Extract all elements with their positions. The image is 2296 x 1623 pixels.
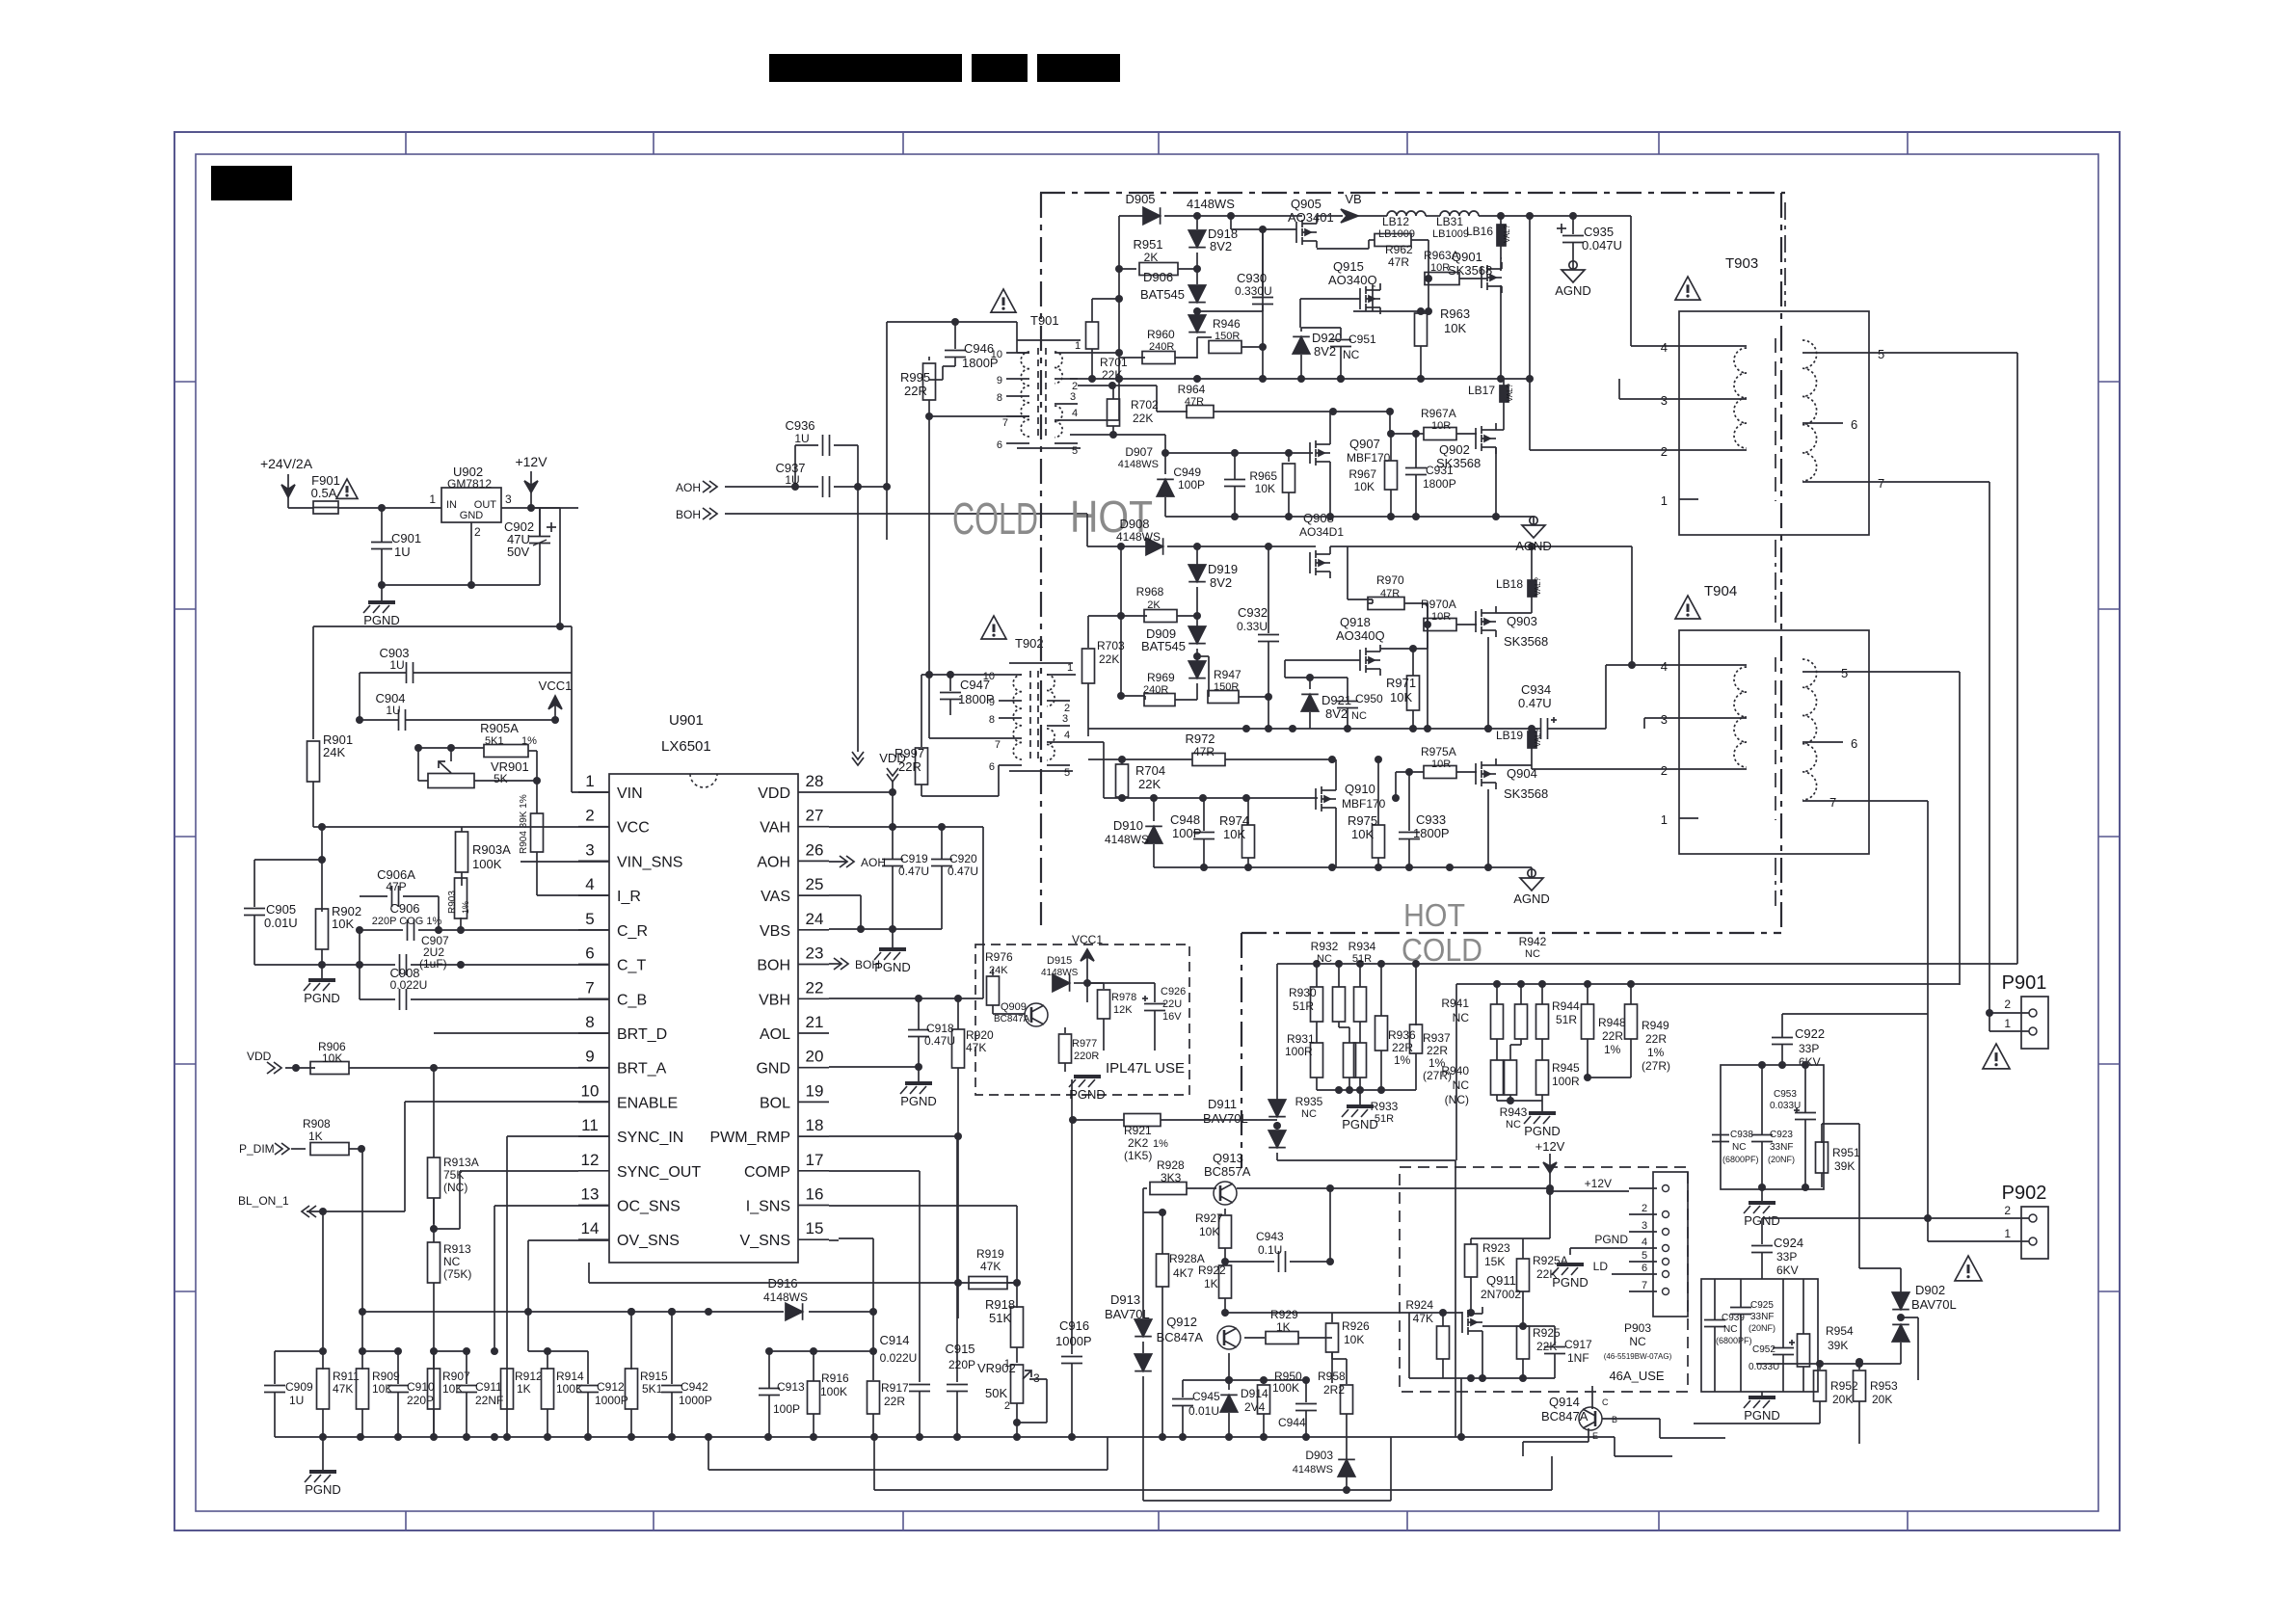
svg-text:18: 18 bbox=[806, 1116, 824, 1134]
svg-text:22R: 22R bbox=[1645, 1032, 1667, 1046]
resistor R903 bbox=[447, 878, 470, 918]
svg-text:NC: NC bbox=[1453, 1011, 1470, 1024]
svg-text:R926: R926 bbox=[1342, 1319, 1370, 1333]
arrow P_DIM in bbox=[239, 1142, 306, 1156]
label IPL47L USE bbox=[1106, 1060, 1185, 1077]
svg-text:D903: D903 bbox=[1305, 1449, 1333, 1462]
svg-text:7: 7 bbox=[995, 739, 1001, 751]
resistor bank2 col2 bbox=[1505, 984, 1528, 1101]
svg-text:R951: R951 bbox=[1832, 1146, 1860, 1159]
wire bbox=[360, 896, 442, 999]
svg-text:PGND: PGND bbox=[1524, 1124, 1561, 1138]
svg-text:C947: C947 bbox=[960, 678, 990, 692]
svg-text:100K: 100K bbox=[556, 1382, 583, 1396]
svg-text:6: 6 bbox=[1642, 1263, 1647, 1274]
dash-dot hotcold drop bbox=[1241, 933, 1242, 1168]
svg-text:R702: R702 bbox=[1131, 398, 1159, 412]
wire BL_ON riser bbox=[323, 1102, 405, 1351]
svg-text:33P: 33P bbox=[1799, 1042, 1819, 1055]
resistor R949 22R 1% (27R) bbox=[1625, 984, 1671, 1078]
svg-text:47R: 47R bbox=[1388, 255, 1409, 269]
svg-text:R975A: R975A bbox=[1421, 745, 1456, 758]
resistor R963A 10R bbox=[1424, 240, 1482, 285]
svg-text:R908: R908 bbox=[303, 1117, 331, 1131]
svg-text:1K: 1K bbox=[517, 1382, 531, 1396]
svg-text:NC: NC bbox=[1317, 953, 1332, 965]
svg-text:220P: 220P bbox=[948, 1358, 975, 1371]
svg-text:26: 26 bbox=[806, 840, 824, 859]
wire pin10 ENABLE bbox=[405, 1101, 609, 1103]
svg-text:1K: 1K bbox=[1204, 1277, 1218, 1290]
svg-text:BAV70L: BAV70L bbox=[1203, 1111, 1248, 1126]
hot-cold dashed boundary bbox=[1040, 193, 1785, 933]
capacitor C942 1000P bbox=[661, 1308, 712, 1437]
svg-text:0.01U: 0.01U bbox=[1188, 1404, 1219, 1418]
svg-text:GND: GND bbox=[756, 1061, 790, 1078]
capacitor C924 33P 6KV bbox=[1751, 1218, 1803, 1279]
svg-text:C948: C948 bbox=[1170, 812, 1200, 827]
wire pin1 bbox=[572, 673, 609, 792]
svg-text:23: 23 bbox=[806, 945, 824, 963]
wire q910 drain bbox=[1335, 759, 1337, 784]
diode D902 BAV70L bbox=[1892, 1268, 1957, 1364]
svg-text:R928A: R928A bbox=[1169, 1252, 1205, 1265]
svg-text:C925: C925 bbox=[1750, 1300, 1774, 1311]
svg-text:R929: R929 bbox=[1270, 1308, 1298, 1321]
svg-text:R931: R931 bbox=[1287, 1032, 1315, 1046]
svg-text:C944: C944 bbox=[1278, 1416, 1306, 1429]
ground AGND2 bbox=[1513, 869, 1550, 906]
transformer T902 bbox=[983, 636, 1076, 779]
wire 12v to connector bbox=[1549, 1217, 1551, 1219]
svg-text:AGND: AGND bbox=[1555, 283, 1591, 298]
svg-text:1%: 1% bbox=[1647, 1046, 1665, 1059]
svg-text:LB17: LB17 bbox=[1468, 384, 1495, 397]
power flag +24V/2A bbox=[260, 456, 313, 497]
resistor R920 47K bbox=[952, 998, 995, 1136]
resistor bank col2 bbox=[1333, 964, 1356, 1090]
label 46A_USE bbox=[1609, 1369, 1664, 1383]
svg-text:PGND: PGND bbox=[1069, 1087, 1106, 1102]
resistor R931 100R bbox=[1285, 1032, 1323, 1090]
diode D906 BAT545 bbox=[1140, 269, 1206, 359]
ground PGND bbox=[874, 929, 911, 974]
wire ipl pgnd bbox=[0, 0, 1, 1]
wire box bottom bbox=[1761, 1392, 1763, 1397]
svg-text:R923: R923 bbox=[1482, 1241, 1510, 1255]
svg-text:C924: C924 bbox=[1774, 1236, 1803, 1250]
inductor LB12 LB1009 bbox=[1378, 211, 1440, 240]
op-amp U901 LX6501 28-pin controller bbox=[578, 712, 829, 1263]
svg-text:8: 8 bbox=[585, 1013, 594, 1031]
svg-text:22K: 22K bbox=[1138, 777, 1161, 791]
inductor LB16 (ferrite) bbox=[1466, 216, 1511, 258]
svg-text:R946: R946 bbox=[1213, 317, 1241, 331]
svg-text:7: 7 bbox=[585, 978, 594, 997]
svg-text:47R: 47R bbox=[1380, 588, 1400, 599]
svg-text:10K: 10K bbox=[372, 1382, 392, 1396]
svg-text:100P: 100P bbox=[1178, 478, 1205, 492]
svg-text:LB16: LB16 bbox=[1466, 225, 1493, 238]
arrow VB bbox=[1341, 192, 1387, 223]
svg-text:1000P: 1000P bbox=[679, 1394, 712, 1407]
resistor R947 150R bbox=[1197, 656, 1272, 704]
arrow AOH out bbox=[829, 856, 886, 869]
svg-text:VBH: VBH bbox=[759, 992, 790, 1008]
svg-text:SYNC_IN: SYNC_IN bbox=[617, 1130, 683, 1146]
warning triangle bbox=[1983, 1044, 2010, 1069]
svg-text:VCC1: VCC1 bbox=[539, 678, 573, 693]
svg-text:47R: 47R bbox=[1185, 396, 1204, 408]
svg-text:C920: C920 bbox=[949, 852, 977, 865]
wire COMP drop bbox=[829, 1171, 920, 1382]
svg-text:P901: P901 bbox=[2002, 972, 2047, 994]
svg-text:12: 12 bbox=[581, 1151, 600, 1169]
wire P902 feed bbox=[0, 0, 1, 1]
arrow BOH out bbox=[829, 958, 880, 971]
wire left riser bbox=[1117, 543, 1125, 700]
svg-text:R947: R947 bbox=[1214, 668, 1241, 681]
wire T904-5 bbox=[1832, 672, 1960, 985]
svg-text:R912: R912 bbox=[515, 1370, 543, 1383]
resistor R951 2K bbox=[1119, 237, 1201, 276]
capacitor C926 22U 16V bbox=[1087, 983, 1186, 1051]
svg-text:R970: R970 bbox=[1376, 573, 1404, 587]
svg-text:25: 25 bbox=[806, 875, 824, 893]
wire cluster bbox=[1758, 1061, 1809, 1191]
wire q913 top bbox=[1142, 1188, 1144, 1313]
dash-dot line bbox=[1784, 202, 1786, 306]
wire lb18 top bbox=[0, 0, 1, 1]
capacitor C917 1NF bbox=[1544, 1326, 1592, 1378]
wire T904-7 bbox=[1822, 801, 1928, 1218]
svg-text:Q903: Q903 bbox=[1507, 614, 1537, 628]
svg-text:6: 6 bbox=[989, 761, 995, 773]
resistor R921 2K2 1% (1K5) bbox=[1069, 1114, 1277, 1163]
diode D907 4148WS bbox=[1118, 445, 1174, 517]
svg-text:3: 3 bbox=[1661, 393, 1668, 408]
wire p903 +12v bbox=[1550, 1190, 1629, 1192]
wire bbox=[1142, 1437, 1144, 1501]
svg-text:R925: R925 bbox=[1533, 1326, 1561, 1340]
svg-text:1000P: 1000P bbox=[595, 1394, 628, 1407]
wire pin15 V_SNS bbox=[829, 1239, 839, 1241]
svg-text:4: 4 bbox=[1072, 408, 1078, 419]
wire T903-5 bbox=[1869, 353, 2017, 964]
svg-text:R703: R703 bbox=[1097, 639, 1125, 652]
svg-text:Q907: Q907 bbox=[1349, 437, 1380, 451]
svg-text:LB19: LB19 bbox=[1496, 729, 1523, 742]
resistor R909 10K bbox=[357, 1149, 401, 1437]
svg-text:T902: T902 bbox=[1015, 636, 1044, 651]
ground PGND 46a bbox=[1552, 1264, 1589, 1290]
svg-text:NC: NC bbox=[1723, 1324, 1737, 1335]
svg-text:C952: C952 bbox=[1752, 1344, 1775, 1355]
capacitor box cluster bbox=[1721, 1065, 1824, 1189]
wire t904 p2 bbox=[1532, 765, 1679, 769]
diode D908 4148WS bbox=[1116, 517, 1201, 555]
svg-text:AO34D1: AO34D1 bbox=[1299, 525, 1344, 539]
svg-text:5: 5 bbox=[1642, 1250, 1647, 1262]
wire hot rail1 bbox=[1070, 375, 1534, 383]
svg-text:D905: D905 bbox=[1125, 192, 1155, 206]
transistor Q914 BC847A bbox=[1541, 1395, 1617, 1441]
svg-text:1K: 1K bbox=[308, 1130, 323, 1143]
resistor R905A 5K1 1% bbox=[418, 721, 537, 781]
svg-text:47K: 47K bbox=[980, 1260, 1001, 1273]
resistor R968 2K bbox=[1121, 585, 1197, 623]
svg-text:10K: 10K bbox=[1444, 321, 1466, 335]
wire q915 to row bbox=[1353, 279, 1432, 315]
svg-text:22R: 22R bbox=[1602, 1029, 1623, 1043]
svg-text:20K: 20K bbox=[1832, 1393, 1853, 1406]
wire pgnd bbox=[1570, 1233, 1629, 1255]
svg-text:C953: C953 bbox=[1774, 1089, 1797, 1100]
capacitor C937 1U bbox=[725, 461, 887, 497]
svg-text:3: 3 bbox=[1661, 712, 1668, 727]
svg-text:R952: R952 bbox=[1830, 1379, 1858, 1393]
svg-text:+24V/2A: +24V/2A bbox=[260, 456, 313, 471]
resistor R936 22R 1% bbox=[1375, 964, 1417, 1090]
svg-text:R968: R968 bbox=[1136, 585, 1164, 599]
svg-text:VAL?: VAL? bbox=[1534, 728, 1542, 747]
svg-text:2: 2 bbox=[2004, 1204, 2011, 1217]
resistor R911 47K bbox=[317, 1351, 360, 1437]
svg-text:(20NF): (20NF) bbox=[1749, 1323, 1775, 1333]
wire bank2 left drop bbox=[1455, 984, 1457, 1160]
wire r928a bbox=[1143, 1209, 1166, 1437]
svg-text:6: 6 bbox=[997, 439, 1002, 451]
svg-text:NC: NC bbox=[1629, 1335, 1646, 1348]
resistor R916 100K bbox=[808, 1351, 850, 1437]
wire agnd stem bbox=[1531, 867, 1533, 878]
wire vr to pin4 bbox=[0, 0, 1, 1]
svg-text:(1uF): (1uF) bbox=[419, 957, 447, 971]
capacitor C903 1U bbox=[360, 646, 572, 720]
resistor R913 NC (75K) bbox=[428, 1242, 472, 1437]
capacitor C902 470U 50V bbox=[504, 508, 556, 585]
svg-text:C919: C919 bbox=[900, 852, 928, 865]
wire q913 base bbox=[1224, 1208, 1226, 1210]
transformer T904 bbox=[1661, 583, 1869, 854]
diode D905 4148WS bbox=[1119, 192, 1235, 225]
connector P902 bbox=[1762, 1183, 2048, 1259]
svg-text:R930: R930 bbox=[1289, 986, 1317, 999]
capacitor C938 NC (6800PF) bbox=[1712, 1130, 1759, 1164]
resistor R978 12K bbox=[1087, 983, 1136, 1051]
wire row2 bbox=[589, 1263, 1017, 1287]
svg-text:21: 21 bbox=[806, 1013, 824, 1031]
svg-text:Q905: Q905 bbox=[1291, 197, 1322, 211]
wire riser left bbox=[883, 322, 891, 540]
svg-text:0.47U: 0.47U bbox=[924, 1034, 955, 1048]
wire q908 out bbox=[1348, 546, 1373, 599]
label COLD bbox=[952, 493, 1038, 544]
label COLD 2 bbox=[1402, 932, 1482, 968]
svg-text:2N7002: 2N7002 bbox=[1481, 1288, 1521, 1301]
svg-text:R943: R943 bbox=[1500, 1105, 1528, 1119]
svg-text:R942: R942 bbox=[1519, 935, 1547, 948]
svg-text:0.022U: 0.022U bbox=[390, 978, 428, 992]
svg-text:IPL47L USE: IPL47L USE bbox=[1106, 1060, 1185, 1077]
svg-text:11: 11 bbox=[581, 1116, 599, 1134]
resistor R912 1K bbox=[501, 1369, 544, 1409]
transistor Q905 AO3401 bbox=[1282, 197, 1343, 248]
svg-text:3: 3 bbox=[505, 492, 512, 506]
inductor LB17 (ferrite) bbox=[1468, 379, 1514, 421]
power flag VCC1 bbox=[1072, 933, 1103, 1002]
wire T903-7 bbox=[1869, 482, 1989, 1013]
svg-text:4: 4 bbox=[1064, 730, 1070, 741]
svg-text:T903: T903 bbox=[1725, 255, 1758, 272]
svg-text:9: 9 bbox=[997, 375, 1002, 386]
svg-text:1U: 1U bbox=[794, 432, 809, 445]
svg-text:2: 2 bbox=[474, 525, 481, 539]
svg-text:VAL?: VAL? bbox=[1503, 224, 1511, 243]
capacitor C918 0.47U bbox=[908, 998, 955, 1067]
svg-text:C950: C950 bbox=[1355, 692, 1383, 705]
svg-text:LB31: LB31 bbox=[1436, 215, 1463, 228]
svg-text:0.022U: 0.022U bbox=[880, 1351, 918, 1365]
svg-text:(NC): (NC) bbox=[443, 1181, 467, 1194]
svg-text:R976: R976 bbox=[985, 950, 1013, 964]
svg-text:Q902: Q902 bbox=[1439, 442, 1470, 457]
warning triangle bbox=[991, 289, 1016, 312]
wire to VIN bbox=[577, 507, 579, 509]
svg-text:50K: 50K bbox=[985, 1386, 1007, 1400]
svg-text:47K: 47K bbox=[333, 1382, 353, 1396]
dashed box IPL47L bbox=[975, 945, 1189, 1095]
svg-text:R954: R954 bbox=[1826, 1324, 1854, 1338]
svg-text:R945: R945 bbox=[1552, 1061, 1580, 1075]
wire bbox=[1399, 1312, 1401, 1314]
svg-text:R928: R928 bbox=[1157, 1158, 1185, 1172]
resistor R995 22R bbox=[900, 357, 936, 420]
transistor Q901 SK3568 bbox=[1448, 250, 1502, 293]
wire ld bbox=[1612, 1273, 1629, 1275]
svg-text:7: 7 bbox=[1002, 417, 1008, 429]
svg-text:R704: R704 bbox=[1135, 763, 1165, 778]
svg-text:24: 24 bbox=[806, 910, 824, 928]
svg-text:0.47U: 0.47U bbox=[1518, 696, 1552, 710]
svg-text:1800P: 1800P bbox=[1423, 477, 1456, 491]
svg-text:AGND: AGND bbox=[1515, 539, 1552, 553]
ground AGND bbox=[1555, 261, 1591, 298]
wire q907-r967 row bbox=[1386, 408, 1394, 434]
svg-text:4: 4 bbox=[1642, 1237, 1647, 1248]
svg-text:33NF: 33NF bbox=[1770, 1142, 1793, 1153]
svg-text:VDD: VDD bbox=[247, 1050, 272, 1063]
svg-text:7: 7 bbox=[1642, 1280, 1647, 1291]
svg-text:D914: D914 bbox=[1241, 1387, 1268, 1400]
wire pin28 bbox=[829, 788, 896, 827]
svg-text:100R: 100R bbox=[1285, 1045, 1313, 1058]
svg-text:1800P: 1800P bbox=[1413, 826, 1450, 840]
svg-text:NC: NC bbox=[1453, 1078, 1470, 1092]
svg-text:T901: T901 bbox=[1030, 313, 1059, 328]
ground AGND3 bbox=[1515, 517, 1552, 553]
svg-text:0.047U: 0.047U bbox=[1582, 238, 1622, 253]
svg-text:1800P: 1800P bbox=[958, 692, 995, 706]
svg-text:51R: 51R bbox=[1352, 953, 1372, 965]
resistor R928A 4K7 bbox=[1157, 1252, 1205, 1287]
svg-text:PGND: PGND bbox=[1594, 1233, 1628, 1246]
svg-text:3: 3 bbox=[585, 840, 594, 859]
wire d902 branch bbox=[1901, 1317, 1918, 1380]
resistor R997 22R bbox=[894, 675, 950, 796]
svg-text:2K2: 2K2 bbox=[1128, 1136, 1149, 1150]
resistor R929 1K bbox=[1244, 1308, 1332, 1344]
svg-text:R967: R967 bbox=[1348, 467, 1376, 481]
wire pin27 VAH bbox=[829, 823, 983, 831]
svg-text:6: 6 bbox=[585, 945, 594, 963]
svg-text:D910: D910 bbox=[1113, 818, 1143, 833]
svg-text:5: 5 bbox=[1064, 767, 1070, 779]
capacitor C925 33NF (20NF) bbox=[1730, 1279, 1775, 1392]
svg-text:2K: 2K bbox=[1147, 599, 1161, 611]
zener D921 8V2 bbox=[1301, 674, 1351, 729]
svg-text:R953: R953 bbox=[1870, 1379, 1898, 1393]
svg-text:1: 1 bbox=[1075, 340, 1081, 352]
wire to T904 p4 bbox=[1606, 661, 1679, 669]
svg-text:AGND: AGND bbox=[1513, 891, 1550, 906]
svg-text:D920: D920 bbox=[1312, 331, 1342, 345]
svg-text:C905: C905 bbox=[266, 902, 296, 917]
svg-text:17: 17 bbox=[806, 1151, 824, 1169]
svg-text:R949: R949 bbox=[1642, 1019, 1669, 1032]
svg-text:BOH: BOH bbox=[757, 958, 790, 974]
wire rail row2 bbox=[1165, 513, 1534, 520]
capacitor C932 0.33U bbox=[1237, 546, 1279, 729]
svg-text:VCC: VCC bbox=[617, 820, 650, 837]
capacitor C930 0.33U bbox=[1235, 226, 1273, 379]
wire riser2 bbox=[1087, 514, 1121, 546]
svg-text:AOH: AOH bbox=[676, 481, 701, 494]
wire pin18 PWM_RMP bbox=[829, 1132, 962, 1318]
diode D910 4148WS bbox=[1105, 798, 1162, 867]
dash-dot line bbox=[1775, 858, 1776, 906]
svg-text:R941: R941 bbox=[1441, 997, 1469, 1010]
svg-text:+12V: +12V bbox=[1585, 1177, 1612, 1190]
wire VAH right drop bbox=[829, 827, 983, 1002]
transistor Q915 AO340Q bbox=[1300, 259, 1380, 328]
svg-text:C_B: C_B bbox=[617, 992, 647, 1008]
svg-text:PGND: PGND bbox=[363, 613, 400, 627]
wire VBS row bbox=[829, 925, 942, 933]
svg-text:150R: 150R bbox=[1215, 331, 1240, 342]
svg-text:C913: C913 bbox=[777, 1380, 805, 1394]
svg-text:R997: R997 bbox=[894, 746, 924, 760]
svg-text:1%: 1% bbox=[1604, 1043, 1621, 1056]
svg-text:R962: R962 bbox=[1385, 243, 1413, 256]
capacitor C949 100P bbox=[1173, 453, 1245, 517]
svg-text:AO340Q: AO340Q bbox=[1336, 628, 1385, 643]
svg-text:22: 22 bbox=[806, 978, 824, 997]
resistor R948 22R 1% bbox=[1582, 984, 1627, 1078]
trimmer VR901 5K bbox=[418, 759, 541, 788]
wire q905 gate bbox=[1231, 216, 1296, 229]
warning triangle bbox=[336, 479, 358, 498]
capacitor C923 33NF (20NF) bbox=[1751, 1065, 1795, 1187]
resistor R950 100K bbox=[1258, 1370, 1303, 1437]
resistor R952 20K bbox=[1814, 1360, 1859, 1423]
ground PGND bbox=[304, 961, 340, 1005]
svg-text:PGND: PGND bbox=[900, 1094, 937, 1108]
resistor R965 10K bbox=[1249, 453, 1295, 517]
wire riser mid bbox=[928, 416, 930, 660]
svg-text:39K: 39K bbox=[1828, 1339, 1848, 1352]
svg-text:NC: NC bbox=[1351, 710, 1367, 722]
